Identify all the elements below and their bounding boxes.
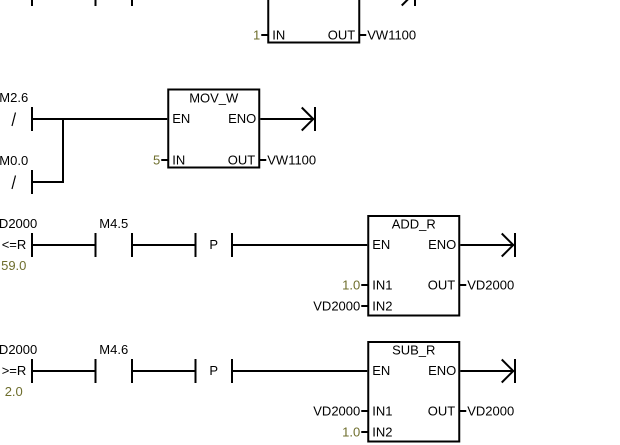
svg-text:IN1: IN1 — [372, 278, 392, 293]
svg-text:M4.5: M4.5 — [99, 216, 128, 231]
svg-text:59.0: 59.0 — [1, 258, 26, 273]
compare contact right bar — [31, 359, 33, 383]
svg-text:VW1100: VW1100 — [267, 153, 316, 168]
svg-text:2.0: 2.0 — [5, 384, 23, 399]
svg-text:OUT: OUT — [328, 28, 356, 43]
contact P right bar — [231, 233, 233, 257]
svg-text:P: P — [209, 237, 218, 252]
svg-text:VD2000: VD2000 — [467, 404, 514, 419]
pin OUT tick — [359, 34, 366, 36]
svg-text:M2.6: M2.6 — [0, 90, 28, 105]
svg-text:P: P — [209, 363, 218, 378]
ENO wire — [260, 118, 314, 120]
branch horizontal wire — [33, 181, 64, 183]
box MOV (cut off) — [268, 0, 359, 43]
contact 1 right bar (stub) — [31, 0, 33, 6]
arrow — [502, 360, 514, 383]
ENO wire — [460, 370, 514, 372]
svg-text:M0.0: M0.0 — [0, 153, 28, 168]
svg-text:IN: IN — [272, 28, 285, 43]
svg-text:1: 1 — [253, 28, 260, 43]
svg-text:VD2000: VD2000 — [313, 404, 360, 419]
pin IN1 tick — [361, 410, 368, 412]
contact 2 left bar (stub) — [95, 0, 97, 6]
svg-text:VD2000: VD2000 — [0, 216, 37, 231]
svg-text:1.0: 1.0 — [342, 425, 360, 440]
svg-text:ENO: ENO — [428, 363, 456, 378]
svg-text:1.0: 1.0 — [342, 278, 360, 293]
contact 2 right bar (stub) — [131, 0, 133, 6]
box SUB_R — [368, 342, 459, 442]
pin OUT tick — [459, 410, 466, 412]
arrow (cut off) — [402, 0, 414, 6]
contact P right bar — [231, 359, 233, 383]
svg-text:5: 5 — [153, 153, 160, 168]
pin IN2 tick — [361, 431, 368, 433]
pin IN2 tick — [361, 305, 368, 307]
wire — [33, 244, 95, 246]
svg-text:ENO: ENO — [228, 111, 256, 126]
contact M2.6 (NC) right bar — [31, 107, 33, 131]
branch vertical wire — [62, 118, 64, 183]
svg-text:EN: EN — [372, 363, 390, 378]
contact M4.5 left bar — [95, 233, 97, 257]
pin OUT tick — [459, 284, 466, 286]
wire — [133, 244, 195, 246]
svg-text:IN: IN — [172, 153, 185, 168]
svg-text:ENO: ENO — [428, 237, 456, 252]
svg-text:VD2000: VD2000 — [0, 342, 37, 357]
svg-text:ADD_R: ADD_R — [392, 217, 436, 232]
svg-text:IN1: IN1 — [372, 404, 392, 419]
wire to ADD_R — [233, 244, 367, 246]
contact P left bar — [195, 359, 197, 383]
compare contact right bar — [31, 233, 33, 257]
contact M0.0 slash — [12, 176, 16, 190]
svg-text:VD2000: VD2000 — [467, 278, 514, 293]
pin IN tick — [161, 159, 168, 161]
pin IN1 tick — [361, 284, 368, 286]
box MOV_W — [168, 90, 259, 168]
contact M4.6 right bar — [131, 359, 133, 383]
svg-text:EN: EN — [172, 111, 190, 126]
svg-text:OUT: OUT — [228, 153, 256, 168]
pin IN tick — [261, 34, 268, 36]
wire to MOV_W box — [33, 118, 167, 120]
svg-text:MOV_W: MOV_W — [189, 91, 239, 106]
arrow — [302, 108, 314, 131]
svg-text:IN2: IN2 — [372, 299, 392, 314]
wire — [33, 370, 95, 372]
svg-text:VD2000: VD2000 — [313, 299, 360, 314]
svg-text:OUT: OUT — [428, 404, 456, 419]
box ADD_R — [368, 216, 459, 316]
svg-text:SUB_R: SUB_R — [392, 343, 435, 358]
svg-text:EN: EN — [372, 237, 390, 252]
wire to SUB_R — [233, 370, 367, 372]
arrow — [502, 234, 514, 257]
contact M4.5 right bar — [131, 233, 133, 257]
svg-text:OUT: OUT — [428, 278, 456, 293]
contact M0.0 (NC) right bar — [31, 170, 33, 194]
contact M2.6 slash — [12, 113, 16, 127]
svg-text:<=R: <=R — [2, 237, 27, 252]
wire — [133, 370, 195, 372]
svg-text:IN2: IN2 — [372, 425, 392, 440]
contact P left bar — [195, 233, 197, 257]
svg-text:M4.6: M4.6 — [99, 342, 128, 357]
svg-text:>=R: >=R — [2, 363, 27, 378]
contact M4.6 left bar — [95, 359, 97, 383]
ENO wire — [460, 244, 514, 246]
svg-text:VW1100: VW1100 — [367, 28, 416, 43]
pin OUT tick — [259, 159, 266, 161]
